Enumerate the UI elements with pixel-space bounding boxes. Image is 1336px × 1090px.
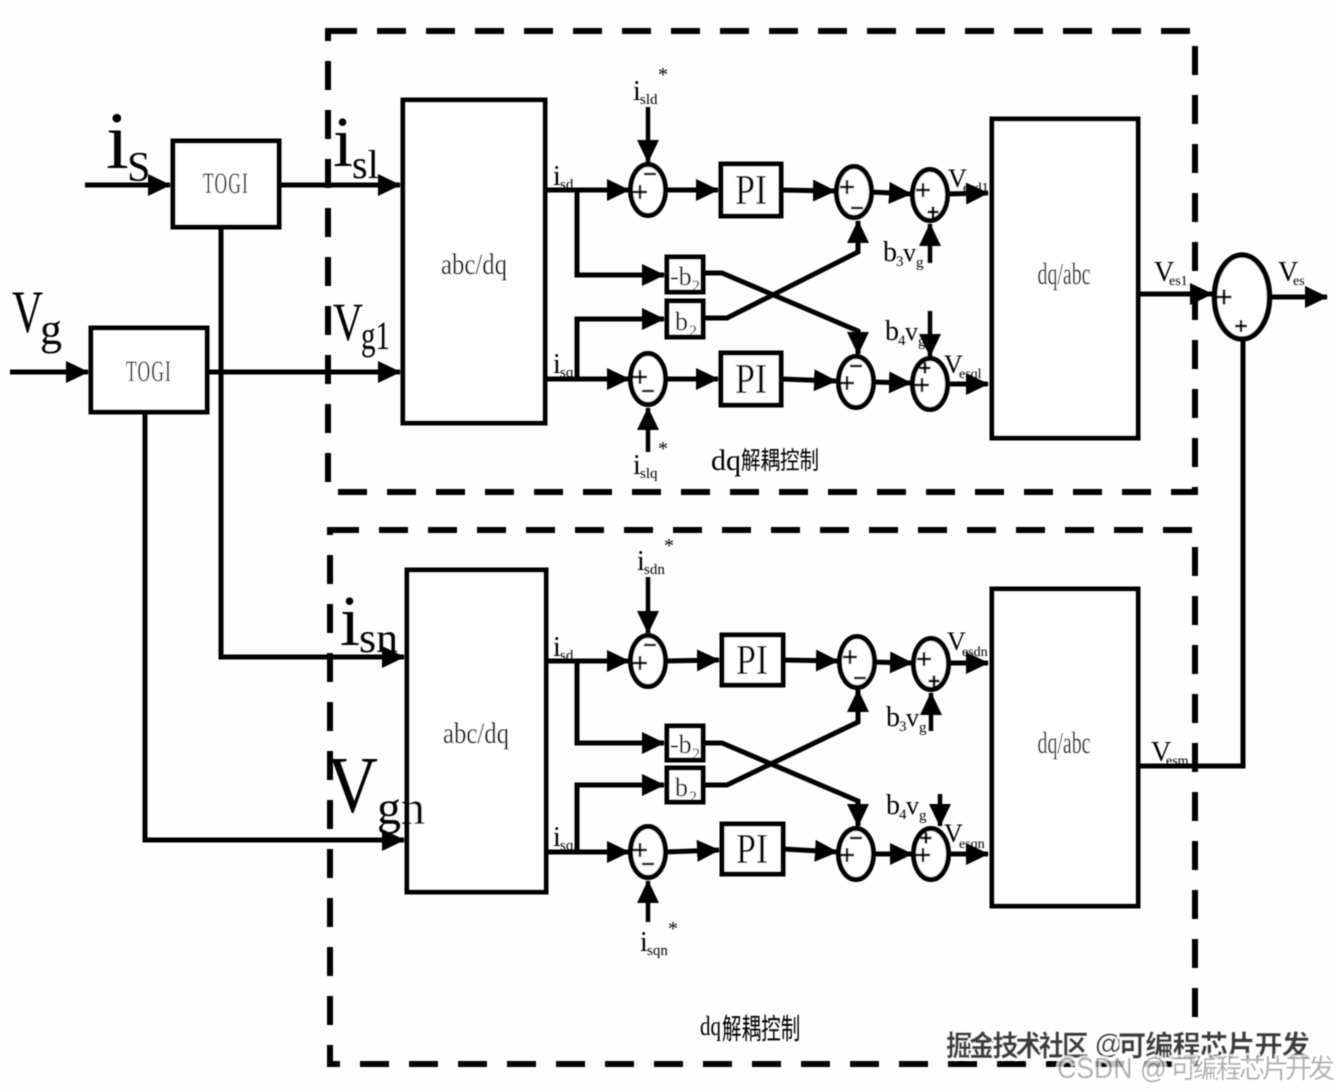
- svg-text:CSDN @: CSDN @: [1057, 1053, 1167, 1085]
- wire: PI1 to S3: [781, 190, 835, 191]
- svg-text:V: V: [327, 742, 378, 830]
- wire: TOGI2 to abc/dq (V_g1): [207, 370, 400, 375]
- wire: branch i_sq up to b2 (bottom): [577, 785, 664, 852]
- svg-text:dq/abc: dq/abc: [1038, 725, 1091, 760]
- svg-text:abc/dq: abc/dq: [441, 248, 507, 281]
- sign plus S1 left: [633, 185, 647, 199]
- sign plus S6 top: [920, 363, 931, 374]
- sign minus S2b bottom: [642, 863, 654, 865]
- wire: V_esm up to output summer: [1138, 338, 1243, 766]
- block PI3: [722, 635, 783, 685]
- summing junction S6: [913, 359, 948, 410]
- svg-text:PI: PI: [735, 168, 767, 214]
- sign plus S3b left: [843, 650, 857, 664]
- summing junction S3: [837, 167, 872, 218]
- svg-text:slq: slq: [640, 466, 658, 482]
- wire: S3 to S4: [871, 192, 911, 194]
- svg-text:b: b: [883, 237, 897, 268]
- svg-text:dq: dq: [711, 444, 741, 477]
- wire: b3_vg arrow up into S4: [928, 224, 933, 263]
- sign plus S6b top: [921, 833, 932, 844]
- block abc/dq (top): [403, 100, 545, 423]
- wire: b4_vg arrow down into S6b: [938, 794, 943, 826]
- svg-text:sl: sl: [352, 142, 379, 187]
- svg-text:g1: g1: [361, 313, 390, 358]
- svg-text:es1: es1: [1169, 274, 1188, 289]
- svg-text:b: b: [886, 790, 900, 821]
- svg-text:i: i: [340, 581, 360, 661]
- wire: S2b to PI4: [666, 850, 719, 852]
- svg-text:g: g: [40, 305, 62, 354]
- svg-text:gn: gn: [377, 782, 425, 835]
- gain block b2 (top): [667, 301, 703, 337]
- wire: b2 cross up into S3: [703, 221, 858, 318]
- wire: branch i_sd down to -b2 (bottom): [577, 661, 664, 743]
- svg-text:i: i: [106, 95, 129, 186]
- wire: i_sq to S2b: [546, 850, 629, 855]
- summing junction S6b: [914, 829, 949, 880]
- block PI2: [721, 353, 781, 405]
- sign plus S6b left: [916, 848, 930, 862]
- gain block -b2 (top): [667, 257, 703, 292]
- block abc/dq (bottom): [407, 570, 546, 892]
- wire: i_sdn* down into S1b: [646, 577, 651, 633]
- wire: branch i_sq up to b2: [577, 319, 664, 379]
- wire: -b2 cross down into S5b: [703, 743, 858, 826]
- summing junction S5: [839, 357, 874, 408]
- sign plus OUT bottom: [1235, 320, 1247, 332]
- svg-text:sqn: sqn: [647, 943, 668, 959]
- wire: i_slq* up into S2: [646, 408, 651, 452]
- wire: PI4 to S5b: [783, 849, 837, 852]
- summing junction S4b: [914, 639, 949, 690]
- svg-text:g: g: [919, 720, 927, 736]
- wire: S6b to dq/abc (V_esqn): [947, 852, 988, 857]
- wire: S4 to dq/abc (V_esd1): [946, 193, 988, 194]
- block dq/abc (top): [992, 119, 1138, 438]
- svg-text:abc/dq: abc/dq: [443, 717, 509, 750]
- sign plus S2b left: [633, 843, 647, 857]
- svg-text:dq/abc: dq/abc: [1038, 256, 1091, 291]
- sign plus S4 bottom: [928, 207, 939, 218]
- wire: b2 cross up into S3b: [703, 690, 858, 785]
- svg-text:v: v: [905, 317, 918, 346]
- summing junction S5b: [839, 829, 874, 880]
- sign minus S1b top: [644, 644, 656, 646]
- sign minus S2 bottom: [642, 390, 654, 392]
- block dq/abc (bottom): [992, 589, 1138, 906]
- wire: S1b to PI3: [666, 660, 719, 661]
- svg-text:*: *: [658, 64, 668, 86]
- dashed box: bottom dq decoupling control region: [330, 530, 1195, 1064]
- summing junction S4: [913, 170, 948, 221]
- svg-text:b: b: [675, 773, 688, 802]
- block TOGI2 (voltage): [91, 328, 207, 412]
- svg-text:b: b: [885, 316, 899, 347]
- sign minus S3b bottom: [854, 677, 866, 679]
- wire: S4b to dq/abc (V_esdn): [947, 661, 988, 666]
- wire: V_g input arrow into TOGI2: [10, 370, 88, 375]
- sign plus S5 left: [840, 376, 854, 390]
- summing junction S1b: [631, 636, 666, 687]
- svg-text:esdn: esdn: [962, 645, 988, 660]
- wire: S3b to S4b: [874, 662, 912, 663]
- sign plus OUT left: [1217, 290, 1232, 305]
- summing junction S2: [631, 354, 666, 405]
- sign plus S4b bottom: [929, 676, 940, 687]
- svg-text:es: es: [1293, 274, 1305, 289]
- svg-text:2: 2: [692, 278, 700, 295]
- svg-text:v: v: [906, 791, 919, 820]
- wire: i_sd to summing S1: [545, 188, 629, 193]
- svg-text:g: g: [919, 808, 927, 824]
- svg-text:PI: PI: [736, 827, 768, 873]
- svg-text:2: 2: [692, 746, 700, 763]
- wire: PI3 to S3b: [783, 660, 838, 661]
- svg-text:esql: esql: [959, 367, 982, 382]
- wire: i_sld* down into S1: [646, 107, 651, 162]
- wire: branch i_sd down to -b2: [577, 190, 664, 275]
- summing junction S2b: [631, 827, 666, 878]
- svg-text:2: 2: [689, 789, 697, 806]
- wire: TOGI1 down to bottom section (i_sn): [221, 227, 404, 657]
- wire: i_sd to S1b: [546, 659, 629, 664]
- sign minus S1 top: [644, 173, 656, 175]
- wire: b3_vg arrow up into S4b: [929, 693, 934, 731]
- dashed box: top dq decoupling control region: [328, 31, 1195, 492]
- svg-text:PI: PI: [736, 638, 768, 684]
- block TOGI1 (current): [173, 141, 279, 227]
- svg-text:g: g: [918, 334, 926, 350]
- svg-text:g: g: [916, 255, 924, 271]
- wire: b4_vg arrow down into S6: [928, 311, 933, 356]
- summing junction S1: [631, 165, 666, 216]
- wire: TOGI2 down to bottom section (V_gn): [145, 412, 404, 840]
- wire: -b2 cross down into S5: [703, 273, 858, 354]
- wire: i_s input arrow into TOGI1: [85, 183, 170, 188]
- sign plus S6 left: [915, 378, 929, 392]
- sign plus S1b left: [633, 656, 647, 670]
- svg-text:b: b: [675, 307, 688, 336]
- sign plus S2 left: [633, 370, 647, 384]
- wire: S6 to dq/abc (V_esql): [946, 382, 988, 387]
- sign minus S5b top: [850, 837, 862, 839]
- svg-text:sld: sld: [640, 92, 658, 108]
- svg-text:*: *: [658, 438, 668, 460]
- svg-text:-b: -b: [670, 262, 692, 291]
- wire: i_sq to summing S2: [545, 377, 629, 382]
- svg-text:V: V: [12, 279, 43, 345]
- svg-text:i: i: [333, 102, 353, 182]
- wire: dq/abc to output summer (V_es1): [1138, 292, 1212, 297]
- svg-text:*: *: [668, 918, 678, 940]
- svg-text:sdn: sdn: [644, 562, 665, 578]
- svg-text:b: b: [886, 702, 900, 733]
- svg-text:-b: -b: [670, 730, 692, 759]
- sign plus S4b left: [917, 652, 931, 666]
- svg-text:esqn: esqn: [959, 837, 985, 852]
- gain block b2 (bottom): [667, 768, 703, 802]
- svg-text:v: v: [903, 238, 916, 267]
- wire: S5b to S6b: [873, 852, 912, 857]
- sign plus S4 left: [916, 183, 930, 197]
- wire: S5 to S6: [873, 382, 911, 383]
- block PI1: [721, 164, 781, 216]
- svg-text:2: 2: [689, 323, 697, 340]
- sign minus S5 top: [850, 365, 862, 367]
- sign minus S3 bottom: [851, 207, 863, 209]
- wire: S1 to PI1: [666, 188, 718, 193]
- summing junction OUT (V_es): [1215, 255, 1270, 339]
- wire: PI2 to S5: [781, 379, 836, 381]
- svg-text:PI: PI: [735, 357, 767, 403]
- wire: S2 to PI2: [666, 377, 718, 382]
- svg-text:TOGI: TOGI: [203, 167, 249, 200]
- block PI4: [722, 824, 783, 874]
- sign plus S3 left: [840, 180, 854, 194]
- sign plus S5b left: [840, 848, 854, 862]
- svg-text:dq: dq: [700, 1011, 721, 1041]
- svg-text:sn: sn: [359, 616, 398, 662]
- watermark juejin community line: [947, 1031, 1088, 1059]
- wire: i_sqn* up into S2b: [646, 881, 651, 922]
- gain block -b2 (bottom): [667, 726, 703, 760]
- svg-text:*: *: [664, 535, 674, 557]
- svg-text:v: v: [906, 703, 919, 732]
- svg-text:TOGI: TOGI: [126, 355, 172, 388]
- wire: TOGI1 to abc/dq (i_sl): [279, 183, 400, 188]
- svg-text:V: V: [333, 292, 363, 352]
- summing junction S3b: [840, 637, 875, 688]
- wire: output arrow V_es: [1270, 295, 1327, 300]
